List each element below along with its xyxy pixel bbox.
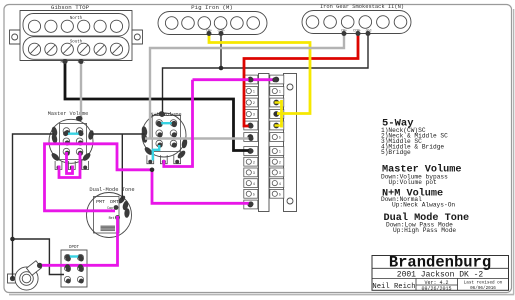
wire: humbucker gray to master pot casing [80, 60, 82, 117]
svg-text:3: 3 [279, 172, 281, 176]
wire: ground bus (smokestack gnd lug to N+M pot casing) [163, 33, 369, 114]
svg-text:Up:High Pass Mode: Up:High Pass Mode [393, 227, 456, 234]
solder lugs at wire ends [63, 59, 68, 64]
wire: magenta jumper on master pot (inner) [67, 152, 73, 174]
pot: Master Volume (push/pull) [49, 119, 93, 163]
svg-text:N+M Volume: N+M Volume [150, 112, 181, 118]
pot: N+M Volume (push/pull) [142, 113, 186, 157]
svg-text:2: 2 [253, 102, 255, 106]
pickup: Pig Iron (M) single coil [158, 12, 267, 35]
wire: magenta jumper on master pot (outer) [59, 153, 80, 178]
svg-text:Iron Gear Smokestack II(N): Iron Gear Smokestack II(N) [320, 4, 404, 10]
svg-text:5)Bridge: 5)Bridge [381, 149, 411, 156]
svg-text:Up:Neck Always-On: Up:Neck Always-On [392, 202, 455, 209]
wire: pig iron CCW- to ground bus [220, 33, 222, 68]
svg-text:Cap: Cap [107, 206, 113, 210]
svg-text:Pig Iron (M): Pig Iron (M) [191, 4, 233, 11]
wire: magenta master/dual loop to 5-way common [45, 144, 252, 211]
wire: magenta dual-mode tone to DPDT and jack [40, 216, 118, 265]
svg-text:2: 2 [253, 161, 255, 165]
svg-text:3: 3 [253, 114, 255, 118]
svg-text:Last revised on: Last revised on [464, 280, 503, 285]
svg-text:Brandenburg: Brandenburg [389, 254, 491, 272]
svg-text:Ret: Ret [109, 216, 115, 220]
wire: pig iron hot (yellow) to 5-way [209, 33, 310, 114]
wire: smokestack gray to 5-way terminal 5 [150, 33, 344, 139]
pickup: Iron Gear Smokestack II(N) single coil [302, 11, 411, 34]
svg-text:2001 Jackson DK -2: 2001 Jackson DK -2 [397, 271, 484, 280]
svg-text:Neil Reich: Neil Reich [372, 283, 415, 291]
svg-text:5: 5 [279, 137, 281, 141]
wire: cyan jumper N+M pot [158, 122, 175, 124]
wire: ground branch to jack sleeve [12, 239, 14, 279]
junction dots [219, 66, 224, 71]
svg-text:3: 3 [253, 172, 255, 176]
svg-text:DMT: DMT [110, 199, 119, 205]
svg-text:09/26/2015: 09/26/2015 [421, 286, 451, 292]
switch: 5-way super switch [259, 74, 270, 212]
svg-text:06/06/2016: 06/06/2016 [470, 286, 496, 291]
wire: magenta 5-way commons jumper [193, 78, 277, 81]
pot: Dual-Mode Tone [87, 193, 132, 238]
svg-text:DPDT: DPDT [69, 246, 80, 250]
svg-text:Up:Volume pot: Up:Volume pot [389, 179, 438, 186]
output jack [8, 274, 18, 283]
wire: magenta N+M middle lug to 5-way common [164, 80, 193, 167]
wire: cyan jumper master pot [65, 132, 82, 134]
wire: gray across N+M pot to 5-way terminal 5 [145, 137, 252, 139]
svg-text:2: 2 [279, 161, 281, 165]
wire: cyan N+M lug to bottom lug [153, 145, 159, 161]
svg-text:5: 5 [253, 194, 255, 198]
wire: humbucker hot (black) to 5-way terminal [65, 60, 249, 151]
wire: master pot tab to N+M pot tab [92, 133, 145, 135]
pickup: Gibson TTOP humbucker [10, 11, 143, 61]
svg-text:5: 5 [279, 194, 281, 198]
svg-text:South: South [70, 39, 83, 44]
svg-text:Ver: 4.2: Ver: 4.2 [424, 280, 448, 286]
wire: master pot tab to jack/DPDT ground [13, 134, 65, 275]
wire: smokestack hot (red) to 5-way terminal [244, 33, 358, 126]
border shadow [9, 294, 514, 296]
switch: DPDT [61, 250, 87, 287]
svg-text:North: North [70, 16, 83, 21]
svg-text:Dual-Mode Tone: Dual-Mode Tone [89, 187, 134, 193]
title block [372, 256, 509, 291]
wire: N+M pot tab down to dual-mode tone tab [121, 134, 123, 200]
wire: cyan jumper DPDT [68, 255, 81, 257]
svg-text:PMT: PMT [96, 199, 105, 205]
wire: yellow jumper on 5-way [280, 100, 283, 128]
svg-text:Gibson TTOP: Gibson TTOP [51, 4, 90, 11]
